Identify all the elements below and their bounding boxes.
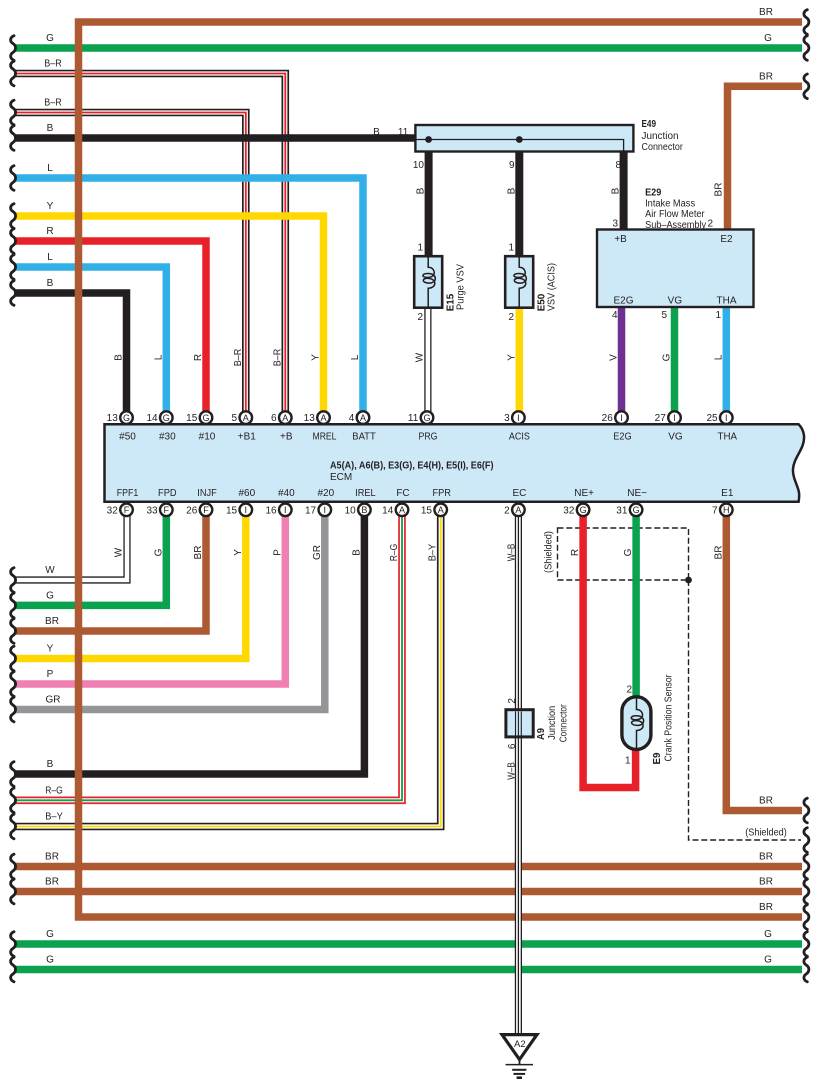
wire G row 1: [14, 940, 802, 948]
left break symbol B-R y73: [11, 61, 16, 86]
left break symbol B-R y112: [11, 100, 16, 125]
svg-text:G: G: [764, 33, 772, 44]
svg-text:2: 2: [507, 698, 518, 704]
ECM top pin VG terminal: [668, 411, 681, 424]
ECM top pin #50 terminal: [120, 411, 133, 424]
left break symbol P y684: [11, 672, 16, 697]
wire B E49 pin 9 to E50: [515, 150, 523, 257]
ECM bottom pin IREL terminal: [358, 504, 371, 517]
right break symbol G y969: [804, 957, 809, 982]
right break symbol BR y891: [804, 879, 809, 904]
svg-text:BR: BR: [45, 616, 59, 627]
svg-text:(Shielded): (Shielded): [745, 828, 787, 839]
svg-text:W–B: W–B: [507, 543, 518, 561]
wire R ECM NE+ to E9 pin 1: [583, 512, 636, 788]
svg-text:Connector: Connector: [642, 142, 684, 153]
svg-text:GR: GR: [312, 545, 323, 560]
svg-text:6: 6: [507, 743, 518, 749]
svg-text:L: L: [47, 163, 53, 174]
svg-text:1: 1: [715, 310, 721, 321]
svg-text:E49: E49: [642, 119, 657, 130]
svg-text:A: A: [399, 505, 405, 515]
svg-text:Purge VSV: Purge VSV: [456, 264, 467, 310]
svg-text:B: B: [361, 505, 367, 515]
svg-text:5: 5: [661, 310, 667, 321]
svg-text:2: 2: [417, 312, 423, 323]
svg-text:A: A: [282, 413, 288, 423]
left break symbol R-G y800: [11, 788, 16, 813]
svg-text:Y: Y: [311, 354, 322, 361]
ECM top pin E2G terminal: [615, 411, 628, 424]
svg-text:FPF1: FPF1: [117, 488, 139, 499]
left break symbol L y267: [11, 255, 16, 280]
wire BR ground trunk: [79, 22, 803, 917]
wire B to ECM #50: [14, 293, 127, 415]
ECM top pin ACIS terminal: [512, 411, 525, 424]
svg-text:A5(A), A6(B), E3(G), E4(H), E5: A5(A), A6(B), E3(G), E4(H), E5(I), E6(F): [330, 461, 494, 472]
left break symbol B y293: [11, 281, 16, 306]
svg-text:G: G: [46, 929, 54, 940]
svg-text:E2G: E2G: [613, 432, 632, 443]
ECM bottom pin NE+ terminal: [577, 504, 590, 517]
svg-text:6: 6: [271, 413, 277, 424]
svg-text:FPR: FPR: [432, 488, 451, 499]
svg-text:Y: Y: [47, 201, 54, 212]
ECM top pin MREL terminal: [317, 411, 330, 424]
svg-text:14: 14: [146, 413, 158, 424]
ECM top pin #10 terminal: [200, 411, 213, 424]
wire B E49 pin 8 to E29 +B: [620, 150, 628, 230]
wire BR from ECM INJF: [14, 512, 206, 631]
left break symbol G y605: [11, 593, 16, 618]
left break symbol GR y709: [11, 697, 16, 722]
wire R-G from ECM FC: [14, 512, 402, 800]
ECM bottom pin EC terminal: [512, 504, 525, 517]
svg-text:W–B: W–B: [507, 762, 518, 780]
svg-text:L: L: [350, 354, 361, 360]
svg-text:G: G: [764, 929, 772, 940]
ECM connector band: [105, 424, 805, 502]
svg-text:INJF: INJF: [197, 488, 217, 499]
crank position sensor E9 pill: [622, 697, 651, 750]
svg-text:25: 25: [706, 413, 718, 424]
ECM bottom pin #40 terminal: [279, 504, 292, 517]
svg-text:GR: GR: [46, 695, 61, 706]
svg-text:B: B: [47, 759, 54, 770]
svg-text:G: G: [46, 33, 54, 44]
svg-text:A9: A9: [536, 728, 547, 740]
E49 internal bus wire: [416, 140, 624, 152]
wire BR row 2: [14, 888, 802, 896]
svg-text:Y: Y: [47, 644, 54, 655]
svg-text:5: 5: [232, 413, 238, 424]
svg-text:G: G: [153, 548, 164, 556]
svg-text:F: F: [203, 505, 209, 515]
ECM bottom pin FC terminal: [396, 504, 409, 517]
ECM bottom pin #60 terminal: [240, 504, 253, 517]
svg-text:17: 17: [305, 505, 317, 516]
wire B-R to ECM +B1: [14, 113, 246, 416]
svg-text:B–Y: B–Y: [45, 812, 63, 823]
svg-text:11: 11: [408, 413, 419, 424]
ground A2 triangle: [502, 1035, 537, 1060]
svg-text:A: A: [243, 413, 249, 423]
ECM top pin +B terminal: [279, 411, 292, 424]
ground bars: [506, 1065, 534, 1078]
ECM bottom pin #20 terminal: [319, 504, 332, 517]
right break symbol BR y86: [804, 74, 809, 99]
wire B E49 pin 10 to E15: [425, 150, 433, 257]
wire B from ECM IREL: [14, 512, 364, 774]
svg-text:L: L: [713, 354, 724, 360]
svg-text:P: P: [272, 549, 283, 556]
svg-text:R–G: R–G: [45, 785, 63, 796]
wire B-R to ECM +B: [14, 74, 285, 416]
wire Y to ECM MREL: [14, 216, 324, 415]
wire BR row 1: [14, 863, 802, 871]
junction connector E49 box: [415, 125, 633, 152]
svg-text:G: G: [46, 590, 54, 601]
ECM top pin BATT terminal: [357, 411, 370, 424]
svg-text:E2G: E2G: [613, 296, 633, 307]
right break symbol BR y22: [804, 10, 809, 35]
svg-text:B: B: [416, 187, 427, 194]
wire W from ECM FPF1: [14, 512, 127, 580]
wire V E29 E2G to ECM: [618, 306, 626, 415]
svg-text:G: G: [423, 413, 430, 423]
svg-text:THA: THA: [718, 432, 738, 443]
svg-text:31: 31: [616, 505, 628, 516]
svg-text:4: 4: [612, 310, 618, 321]
svg-text:V: V: [609, 354, 620, 361]
svg-text:15: 15: [226, 505, 238, 516]
svg-text:13: 13: [304, 413, 316, 424]
svg-text:B: B: [47, 278, 54, 289]
svg-text:A: A: [438, 505, 444, 515]
svg-text:B: B: [351, 549, 362, 556]
left break symbol Y y658: [11, 646, 16, 671]
ECM top pin THA terminal: [720, 411, 733, 424]
left break symbol G y969: [11, 957, 16, 982]
wire G E29 VG to ECM: [671, 306, 679, 415]
svg-text:#50: #50: [119, 432, 136, 443]
svg-text:11: 11: [398, 127, 409, 138]
svg-text:#10: #10: [199, 432, 216, 443]
svg-text:A: A: [320, 413, 326, 423]
wire L to ECM #30: [14, 267, 166, 415]
wire Y from ECM #60: [14, 512, 246, 659]
left break symbol B y774: [11, 762, 16, 787]
svg-text:E2: E2: [720, 234, 733, 245]
svg-text:2: 2: [508, 312, 514, 323]
svg-text:+B: +B: [280, 432, 293, 443]
shield drain dashed wire to right edge: [689, 580, 802, 840]
svg-text:G: G: [163, 413, 170, 423]
svg-text:E29: E29: [645, 188, 662, 199]
svg-text:A: A: [360, 413, 366, 423]
svg-text:B–Y: B–Y: [428, 543, 439, 561]
svg-text:Connector: Connector: [558, 704, 569, 743]
svg-text:BR: BR: [759, 877, 773, 888]
wire G top row: [14, 44, 802, 52]
svg-text:G: G: [202, 413, 209, 423]
svg-text:33: 33: [146, 505, 158, 516]
svg-text:Junction: Junction: [547, 706, 558, 740]
svg-text:Y: Y: [506, 354, 517, 361]
ECM bottom pin FPF1 terminal: [120, 504, 133, 517]
svg-text:15: 15: [186, 413, 198, 424]
svg-text:3: 3: [504, 413, 510, 424]
svg-text:10: 10: [413, 160, 425, 171]
svg-text:B–R: B–R: [44, 59, 62, 70]
left break symbol BR y891: [11, 879, 16, 904]
svg-text:16: 16: [265, 505, 277, 516]
svg-text:1: 1: [625, 756, 631, 767]
svg-text:L: L: [47, 252, 53, 263]
svg-text:MREL: MREL: [313, 432, 337, 443]
svg-text:E9: E9: [652, 752, 663, 764]
left break symbol Y y216: [11, 204, 16, 229]
svg-text:B: B: [506, 187, 517, 194]
svg-text:R: R: [46, 226, 53, 237]
ECM bottom pin INJF terminal: [200, 504, 213, 517]
left break symbol R y241: [11, 229, 16, 254]
svg-text:14: 14: [382, 505, 394, 516]
svg-text:PRG: PRG: [419, 432, 438, 443]
svg-text:ACIS: ACIS: [509, 432, 530, 443]
svg-text:L: L: [153, 354, 164, 360]
svg-text:B: B: [47, 123, 54, 134]
svg-text:#20: #20: [317, 488, 334, 499]
svg-text:F: F: [164, 505, 170, 515]
svg-text:15: 15: [421, 505, 433, 516]
svg-text:BR: BR: [193, 546, 204, 560]
svg-text:32: 32: [107, 505, 119, 516]
svg-text:3: 3: [612, 219, 618, 230]
svg-text:BR: BR: [759, 796, 773, 807]
right break symbol BR y866: [804, 854, 809, 879]
svg-text:G: G: [633, 505, 640, 515]
svg-text:26: 26: [602, 413, 614, 424]
svg-text:1: 1: [417, 243, 423, 254]
wire Y E50 to ECM ACIS: [516, 307, 524, 415]
svg-text:G: G: [580, 505, 587, 515]
svg-text:I: I: [245, 505, 248, 515]
air flow meter E29 box: [597, 230, 754, 308]
right break symbol G y48: [804, 36, 809, 61]
svg-text:EC: EC: [512, 488, 526, 499]
wire L E29 THA to ECM: [723, 306, 731, 415]
svg-text:A2: A2: [514, 1039, 526, 1050]
svg-text:Junction: Junction: [642, 131, 679, 142]
ECM top pin #30 terminal: [160, 411, 173, 424]
wire B to E49 pin 11: [14, 134, 415, 142]
svg-text:+B: +B: [614, 234, 627, 245]
svg-text:Intake Mass: Intake Mass: [645, 198, 695, 209]
svg-text:+B1: +B1: [238, 432, 257, 443]
svg-text:B–R: B–R: [44, 98, 62, 109]
right break symbol G y944: [804, 932, 809, 957]
svg-text:1: 1: [508, 243, 514, 254]
svg-text:27: 27: [655, 413, 667, 424]
svg-text:I: I: [620, 413, 623, 423]
svg-text:P: P: [47, 669, 54, 680]
svg-text:VSV (ACIS): VSV (ACIS): [547, 263, 558, 311]
svg-text:NE−: NE−: [627, 488, 647, 499]
wire G row 2: [14, 966, 802, 974]
svg-text:Crank Position Sensor: Crank Position Sensor: [663, 674, 674, 762]
svg-text:BR: BR: [45, 852, 59, 863]
svg-text:FPD: FPD: [158, 488, 177, 499]
svg-text:FC: FC: [396, 488, 409, 499]
svg-text:Air Flow Meter: Air Flow Meter: [645, 209, 705, 220]
right break symbol BR y810: [804, 798, 809, 823]
left break symbol B-Y y826: [11, 814, 16, 839]
svg-text:IREL: IREL: [355, 488, 376, 499]
svg-text:B: B: [373, 127, 380, 138]
wire L to ECM BATT: [14, 178, 363, 415]
left break symbol G y944: [11, 932, 16, 957]
left break symbol W y580: [11, 568, 16, 593]
svg-text:(Shielded): (Shielded): [543, 531, 554, 573]
wire BR ECM E1 to right: [726, 512, 802, 811]
solenoid valve E50 box: [505, 256, 533, 308]
wire GR from ECM #20: [14, 512, 325, 710]
wire B-Y from ECM FPR: [14, 512, 441, 827]
solenoid valve E15 box: [414, 256, 442, 308]
svg-text:BR: BR: [713, 546, 724, 560]
wire G ECM NE- to E9 pin 2: [632, 512, 640, 698]
svg-text:BR: BR: [759, 7, 773, 18]
svg-text:VG: VG: [668, 296, 683, 307]
svg-text:NE+: NE+: [574, 488, 594, 499]
svg-text:G: G: [764, 955, 772, 966]
svg-text:I: I: [725, 413, 728, 423]
svg-text:I: I: [673, 413, 676, 423]
svg-text:BATT: BATT: [352, 432, 376, 443]
wire G from ECM FPD: [14, 512, 166, 605]
svg-text:E1: E1: [721, 488, 734, 499]
svg-text:BR: BR: [759, 852, 773, 863]
svg-text:G: G: [662, 353, 673, 361]
svg-text:4: 4: [349, 413, 355, 424]
left break symbol L y178: [11, 166, 16, 191]
svg-text:W: W: [114, 547, 125, 557]
svg-text:I: I: [324, 505, 327, 515]
left break symbol G y48: [11, 36, 16, 61]
ECM bottom pin NE- terminal: [630, 504, 643, 517]
ECM top pin +B1 terminal: [240, 411, 253, 424]
wire R to ECM #10: [14, 241, 206, 415]
svg-text:G: G: [123, 413, 130, 423]
right break symbol BR y917: [804, 905, 809, 930]
svg-text:8: 8: [615, 160, 621, 171]
svg-text:H: H: [723, 505, 730, 515]
ground stem: [519, 1060, 521, 1065]
svg-text:9: 9: [509, 160, 515, 171]
ECM bottom pin E1 terminal: [720, 504, 733, 517]
svg-text:B–R: B–R: [233, 349, 244, 367]
svg-text:THA: THA: [717, 296, 737, 307]
svg-text:B–R: B–R: [272, 349, 283, 367]
svg-text:R–G: R–G: [389, 544, 400, 562]
svg-text:BR: BR: [759, 71, 773, 82]
E49 bus junction node pin 9: [516, 136, 523, 143]
ECM top pin PRG terminal: [421, 411, 434, 424]
right break symbol shield y840: [804, 828, 809, 853]
svg-text:G: G: [46, 955, 54, 966]
svg-text:7: 7: [712, 505, 718, 516]
E49 bus junction node pin 10: [425, 136, 432, 143]
svg-text:ECM: ECM: [330, 472, 352, 483]
svg-text:B: B: [611, 187, 622, 194]
svg-text:W: W: [414, 352, 425, 362]
junction connector A9 box: [506, 710, 533, 737]
shield box around NE wires: [558, 528, 689, 580]
left break symbol BR y631: [11, 619, 16, 644]
wire BR to E29 E2: [728, 86, 803, 230]
svg-text:F: F: [124, 505, 130, 515]
left break symbol B y138: [11, 126, 16, 151]
wire W E15 to ECM PRG: [424, 307, 431, 414]
svg-text:BR: BR: [759, 902, 773, 913]
svg-text:G: G: [623, 548, 634, 556]
svg-text:Sub–Assembly: Sub–Assembly: [645, 220, 706, 231]
svg-text:B: B: [114, 354, 125, 361]
svg-text:A: A: [515, 505, 521, 515]
svg-text:2: 2: [707, 219, 713, 230]
svg-text:2: 2: [504, 505, 510, 516]
wire W-B ECM EC to ground A2: [515, 512, 522, 1034]
ECM bottom pin FPR terminal: [434, 504, 447, 517]
svg-text:W: W: [45, 565, 55, 576]
svg-text:32: 32: [563, 505, 575, 516]
wire P from ECM #40: [14, 512, 285, 684]
svg-text:BR: BR: [45, 877, 59, 888]
svg-text:13: 13: [107, 413, 119, 424]
ECM bottom pin FPD terminal: [160, 504, 173, 517]
svg-text:#60: #60: [238, 488, 255, 499]
svg-text:Y: Y: [233, 549, 244, 556]
svg-text:#40: #40: [278, 488, 295, 499]
svg-text:I: I: [284, 505, 287, 515]
svg-text:R: R: [570, 549, 581, 556]
svg-text:#30: #30: [159, 432, 176, 443]
svg-text:2: 2: [626, 685, 632, 696]
svg-text:BR: BR: [714, 183, 725, 197]
svg-text:I: I: [517, 413, 520, 423]
svg-text:26: 26: [186, 505, 198, 516]
left break symbol BR y866: [11, 854, 16, 879]
svg-text:10: 10: [345, 505, 357, 516]
shield junction dot: [685, 577, 692, 584]
svg-text:R: R: [193, 354, 204, 361]
svg-text:VG: VG: [668, 432, 683, 443]
